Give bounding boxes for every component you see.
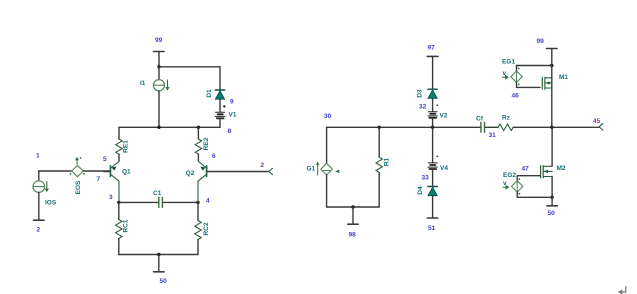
svg-text:99: 99: [537, 38, 545, 45]
svg-text:RE2: RE2: [203, 137, 210, 150]
diode D4: [417, 186, 437, 218]
svg-text:RC2: RC2: [203, 222, 210, 235]
vcvs EG1: [502, 59, 540, 88]
resistor RE1: [116, 127, 130, 161]
svg-text:IOS: IOS: [45, 200, 57, 207]
svg-text:45: 45: [593, 118, 601, 125]
svg-text:2: 2: [261, 162, 265, 169]
svg-text:R1: R1: [384, 157, 391, 166]
paragraph return mark: [618, 287, 626, 294]
svg-text:8: 8: [228, 128, 232, 135]
mosfet M1: [542, 66, 568, 128]
junction on rail at I1: [157, 126, 160, 129]
node 97 bar: [427, 45, 438, 90]
svg-text:Cf: Cf: [476, 116, 484, 123]
node 4 junction: [196, 198, 210, 205]
emitter rail wire (node 8): [119, 126, 220, 128]
wire node1 corner: [39, 170, 72, 172]
svg-text:EG2: EG2: [503, 172, 516, 179]
port node 45: [593, 118, 603, 130]
svg-text:D4: D4: [417, 186, 424, 195]
battery V2: [428, 99, 448, 128]
svg-text:5: 5: [103, 156, 107, 163]
svg-text:97: 97: [428, 45, 436, 52]
svg-text:33: 33: [422, 175, 430, 182]
svg-text:6: 6: [212, 153, 216, 160]
mosfet M2: [541, 127, 566, 197]
svg-text:Rz: Rz: [502, 115, 511, 122]
vcvs EG2: [503, 172, 552, 197]
resistor Rz: [486, 115, 600, 131]
svg-text:50: 50: [160, 278, 168, 285]
svg-text:3: 3: [109, 194, 113, 201]
svg-text:30: 30: [324, 113, 332, 120]
capacitor Cf: [476, 116, 485, 133]
svg-text:V4: V4: [440, 165, 448, 172]
svg-text:C1: C1: [153, 190, 162, 197]
current source I1: [140, 67, 170, 128]
svg-text:EOS: EOS: [75, 180, 82, 194]
node 51 bar: [427, 218, 437, 232]
svg-text:Q2: Q2: [186, 170, 195, 177]
battery V4: [428, 127, 449, 186]
resistor RC2: [195, 202, 210, 254]
svg-text:31: 31: [489, 132, 497, 139]
wire junction to D1 branch: [157, 65, 220, 90]
svg-text:D3: D3: [417, 89, 424, 98]
resistor RE2: [195, 127, 210, 161]
capacitor C1: [119, 190, 198, 207]
svg-text:50: 50: [548, 210, 556, 217]
svg-text:51: 51: [428, 225, 436, 232]
svg-text:V1: V1: [229, 112, 237, 119]
svg-text:99: 99: [155, 37, 163, 44]
svg-text:47: 47: [522, 166, 530, 173]
svg-text:V2: V2: [440, 113, 448, 120]
transistor Q1 (PNP, emitter up): [104, 161, 131, 202]
junction at M1 drain / EG1: [517, 64, 554, 67]
battery V1: [215, 99, 237, 127]
junction on rail at RE2: [197, 126, 200, 129]
svg-text:D1: D1: [206, 89, 213, 98]
svg-text:I1: I1: [140, 80, 146, 87]
node 50 bar (left): [154, 255, 168, 286]
svg-text:Q1: Q1: [122, 169, 131, 176]
node 50 bar (right): [547, 196, 557, 217]
node 98 bar: [348, 207, 358, 239]
svg-text:32: 32: [419, 104, 427, 111]
vccs G1: [307, 127, 340, 207]
bottom rail wire: [119, 253, 198, 256]
svg-text:7: 7: [97, 176, 101, 183]
svg-text:RE1: RE1: [123, 140, 130, 153]
svg-text:98: 98: [349, 232, 357, 239]
output rail junction: [550, 126, 553, 129]
node 99 bar (right): [537, 38, 558, 66]
svg-text:M2: M2: [557, 165, 566, 172]
vcvs EOS: [70, 157, 110, 194]
middle bottom rail: [327, 205, 380, 208]
diode D3: [417, 89, 438, 98]
svg-text:4: 4: [206, 198, 210, 205]
diode D1: [206, 89, 225, 99]
transistor Q2 (PNP mirrored, emitter up): [186, 161, 269, 202]
port node 2: [261, 162, 273, 175]
node 3 junction: [109, 194, 121, 204]
rail 30 wire: [327, 126, 481, 129]
current source IOS: [33, 171, 57, 220]
node 99 (left VCC bar): [154, 37, 165, 67]
svg-text:46: 46: [512, 93, 520, 100]
svg-text:M1: M1: [559, 74, 568, 81]
svg-text:EG1: EG1: [502, 59, 515, 66]
svg-text:9: 9: [230, 99, 234, 106]
resistor R1: [376, 127, 390, 207]
svg-text:RC1: RC1: [123, 219, 130, 232]
resistor RC1: [116, 202, 130, 254]
node 2 bar (bottom of IOS): [34, 220, 44, 233]
svg-text:2: 2: [37, 227, 41, 234]
svg-text:G1: G1: [307, 166, 316, 173]
svg-text:1: 1: [36, 153, 40, 160]
